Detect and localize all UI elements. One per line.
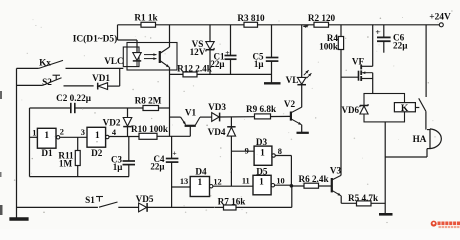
svg-text:1: 1 (44, 131, 49, 141)
svg-text:R1 1k: R1 1k (134, 13, 158, 23)
svg-text:V2: V2 (284, 99, 296, 109)
svg-text:22μ: 22μ (393, 41, 408, 51)
svg-text:D5: D5 (256, 167, 268, 177)
svg-text:VL: VL (286, 75, 299, 85)
svg-text:2: 2 (60, 127, 64, 136)
svg-text:R8 2M: R8 2M (135, 95, 162, 105)
svg-text:R12 2.4k: R12 2.4k (177, 64, 213, 74)
svg-text:VD1: VD1 (92, 73, 110, 83)
svg-text:VF: VF (352, 56, 365, 66)
svg-text:Kx: Kx (39, 57, 51, 67)
svg-text:IC(D1~D5): IC(D1~D5) (73, 34, 117, 45)
svg-text:VD3: VD3 (208, 102, 226, 112)
svg-text:D3: D3 (256, 137, 268, 147)
svg-text:D2: D2 (91, 148, 103, 158)
svg-text:22μ: 22μ (210, 59, 224, 69)
svg-text:+24V: +24V (429, 13, 451, 23)
svg-text:VD2: VD2 (103, 118, 121, 128)
svg-text:9: 9 (245, 146, 249, 155)
svg-text:R10 100k: R10 100k (131, 124, 169, 134)
svg-text:22μ: 22μ (150, 161, 164, 171)
svg-text:+: + (225, 48, 230, 57)
svg-text:R7 16k: R7 16k (218, 196, 247, 206)
svg-text:R5 4.7k: R5 4.7k (348, 193, 379, 203)
svg-text:D1: D1 (41, 148, 53, 158)
svg-text:+: + (375, 27, 380, 37)
svg-text:VD6: VD6 (342, 105, 360, 115)
svg-text:12: 12 (213, 177, 221, 186)
svg-text:12V: 12V (190, 47, 206, 57)
svg-text:V1: V1 (185, 107, 197, 117)
svg-text:13: 13 (180, 177, 188, 186)
svg-text:11: 11 (242, 177, 250, 186)
svg-text:R6 2.4k: R6 2.4k (298, 174, 329, 184)
svg-text:R3 810: R3 810 (237, 13, 265, 23)
svg-text:1M: 1M (59, 158, 73, 168)
svg-text:VD4: VD4 (208, 127, 226, 137)
svg-text:1: 1 (259, 178, 264, 188)
svg-text:V3: V3 (330, 165, 342, 175)
svg-text:K: K (401, 103, 409, 114)
svg-text:S1: S1 (85, 195, 95, 205)
svg-text:1μ: 1μ (254, 59, 264, 69)
svg-text:VD5: VD5 (136, 194, 154, 204)
svg-text:VLC: VLC (104, 56, 123, 66)
svg-text:HA: HA (413, 134, 427, 144)
svg-text:1: 1 (95, 131, 100, 141)
svg-text:D4: D4 (195, 167, 207, 177)
svg-text:R9 6.8k: R9 6.8k (246, 104, 277, 114)
svg-text:C2 0.22μ: C2 0.22μ (56, 93, 92, 103)
svg-text:1μ: 1μ (113, 162, 123, 172)
svg-text:1: 1 (197, 178, 202, 188)
svg-text:3: 3 (81, 128, 85, 137)
svg-text:8: 8 (278, 147, 282, 156)
svg-text:10: 10 (276, 177, 284, 186)
svg-text:100k: 100k (319, 42, 339, 52)
svg-text:S2: S2 (42, 77, 52, 87)
svg-text:1: 1 (260, 148, 265, 158)
svg-text:1: 1 (32, 129, 36, 138)
svg-text:+: + (172, 149, 176, 158)
svg-text:R2 120: R2 120 (308, 13, 336, 23)
